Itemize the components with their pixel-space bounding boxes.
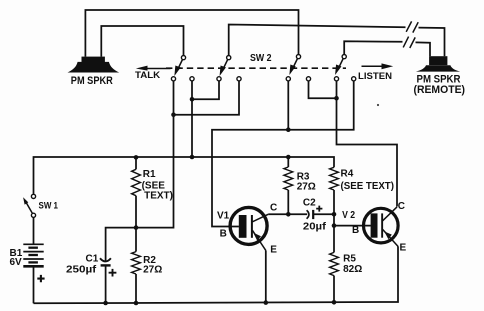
SW2 contact pole1 right: [190, 77, 194, 81]
svg-text:6V: 6V: [10, 257, 23, 268]
svg-text:R5: R5: [343, 254, 356, 265]
svg-text:TEXT): TEXT): [144, 190, 173, 201]
svg-text:250µf: 250µf: [66, 264, 97, 275]
wire: V1 emitter to ground rail: [265, 250, 267, 302]
svg-text:E: E: [400, 242, 407, 253]
svg-text:E: E: [270, 244, 277, 255]
battery B1: [23, 244, 43, 266]
break marks on line to remote speaker (upper): [406, 21, 418, 32]
wire: V1 collector run to C2: [268, 213, 307, 215]
svg-text:R1: R1: [143, 169, 156, 180]
junction: C2 to V2 bias node: [332, 212, 337, 217]
SW2 contact pole2 right: [237, 77, 241, 81]
junction on V1 base run: [286, 127, 291, 132]
svg-text:TALK: TALK: [135, 70, 161, 80]
svg-text:SW 1: SW 1: [39, 201, 59, 212]
wire: SW2 pole4 pivot to remote speaker left terminal: [344, 41, 402, 54]
PM speaker (local): [68, 57, 120, 73]
SW2 contact pole4 right: [352, 77, 356, 81]
wire: bottom ground rail: [34, 246, 399, 303]
wire: V2 base lead: [334, 225, 371, 227]
svg-text:LISTEN: LISTEN: [358, 71, 392, 81]
resistor R3: [284, 157, 293, 214]
wire: pole3 right contact down and right: [309, 81, 337, 98]
TALK arrow: [136, 66, 171, 71]
junction: pole3-right tie on pole4-left wire: [334, 96, 339, 101]
wire: V1 base run (pole4 right contact to V1 base): [212, 81, 354, 227]
resistor R5: [330, 252, 339, 302]
junction: R1 top on rail: [134, 155, 139, 160]
junction: R3 bottom on collector run: [286, 212, 291, 217]
wire: local speaker right terminal to SW2 pole1 pivot: [101, 26, 183, 57]
SW2 mechanical linkage (dashed): [166, 67, 346, 69]
LISTEN arrow: [362, 63, 394, 69]
svg-text:V1: V1: [217, 211, 230, 222]
junction: pole2-right tie on pole1-left wire: [171, 112, 176, 117]
svg-text:(SEE TEXT): (SEE TEXT): [341, 181, 395, 192]
SW2 contact pole3 left: [286, 77, 290, 81]
svg-text:C1: C1: [86, 254, 99, 265]
switch SW2 pole 2 (arm): [227, 56, 231, 60]
junction: pole2-left tie on pole1-right wire: [190, 97, 195, 102]
resistor R4: [330, 167, 339, 252]
junction: R1/R2 tap to C1 node: [134, 225, 139, 230]
junction: V1 emitter on ground rail: [264, 300, 269, 305]
svg-text:C: C: [270, 202, 277, 213]
wire: SW1 to battery: [33, 217, 35, 244]
svg-text:R4: R4: [341, 168, 354, 179]
capacitor C1: [100, 258, 111, 303]
wire: pole2 right contact down and left: [174, 81, 240, 115]
transistor V2: [364, 207, 399, 247]
svg-text:27Ω: 27Ω: [297, 181, 316, 192]
wire: pole3 left contact down to V1 base run: [287, 81, 289, 130]
wire: pole4 left contact down to V2 collector: [337, 81, 398, 207]
wire: pole1 right contact down to +V rail: [191, 81, 193, 157]
break marks on line to remote speaker (lower): [403, 37, 415, 48]
svg-text:V 2: V 2: [342, 210, 355, 221]
capacitor C2: [307, 210, 334, 219]
junction: R5 on ground rail: [332, 300, 337, 305]
switch SW2 pole 3 (arm): [296, 55, 300, 59]
wire: SW2 pole2 pivot to remote speaker right terminal (long line): [229, 25, 406, 56]
SW2 contact pole3 right: [306, 77, 310, 81]
svg-text:82Ω: 82Ω: [343, 264, 362, 275]
resistor R2: [132, 252, 141, 303]
svg-text:(REMOTE): (REMOTE): [414, 84, 466, 96]
C1 + sign: [109, 269, 117, 277]
svg-text:C2: C2: [303, 198, 316, 209]
battery + sign: [37, 275, 44, 282]
PM speaker (remote): [416, 56, 460, 71]
svg-text:PM SPKR: PM SPKR: [71, 75, 113, 87]
C2 + sign: [316, 206, 322, 212]
junction: V2 base node: [332, 223, 337, 228]
stray print speck: [377, 104, 379, 106]
svg-text:27Ω: 27Ω: [143, 265, 162, 276]
resistor R1: [132, 157, 141, 252]
switch SW1: [23, 194, 35, 217]
switch SW2 pole 4 (arm): [342, 55, 346, 59]
SW2 contact pole4 left: [334, 77, 338, 81]
wire: +V rail: [34, 157, 335, 194]
junction: C1 on ground rail: [103, 301, 108, 306]
junction: pole1-right wire on rail: [190, 155, 195, 160]
wire: battery to ground rail: [33, 268, 35, 304]
svg-text:C: C: [398, 201, 405, 212]
svg-text:20µf: 20µf: [303, 222, 327, 233]
transistor V1: [230, 207, 268, 250]
wire: local speaker left terminal to SW2 pole3 pivot (top run): [85, 10, 298, 57]
svg-text:B: B: [352, 225, 359, 236]
junction: R2 on ground rail: [134, 301, 139, 306]
SW2 contact pole1 left: [171, 77, 175, 81]
switch SW2 pole 1 (arm): [181, 56, 185, 60]
junction: R3 top on rail: [286, 155, 291, 160]
wire: pole2 left contact down and left: [192, 81, 219, 99]
svg-text:SW 2: SW 2: [250, 52, 272, 64]
wire: pole1 left contact down to bias node corner: [106, 81, 174, 262]
svg-text:B: B: [220, 229, 227, 240]
SW2 contact pole2 left: [217, 77, 221, 81]
